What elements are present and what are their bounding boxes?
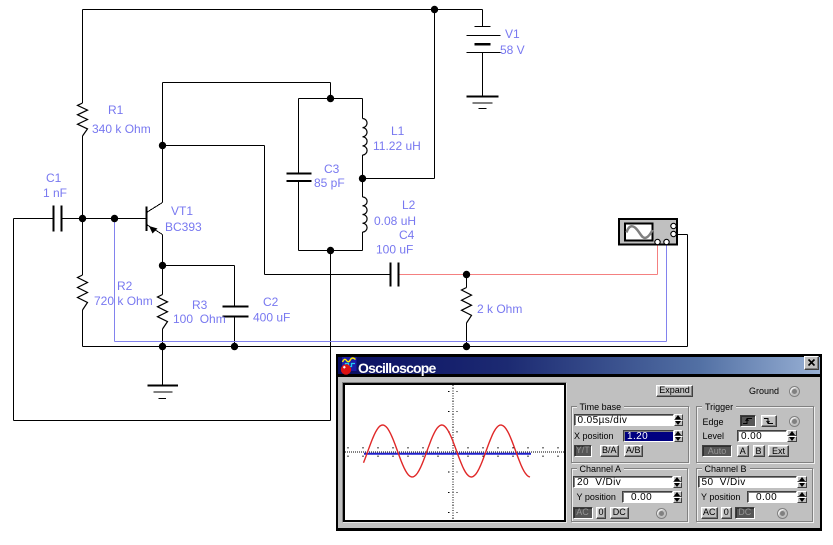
- svg-text:L1: L1: [391, 124, 405, 138]
- svg-text:2 k Ohm: 2 k Ohm: [477, 302, 522, 316]
- svg-text:C4: C4: [399, 228, 415, 242]
- svg-text:100 Ohm: 100 Ohm: [173, 312, 226, 326]
- svg-text:1 nF: 1 nF: [43, 186, 67, 200]
- svg-text:0.08 uH: 0.08 uH: [374, 214, 416, 228]
- svg-text:R3: R3: [192, 298, 208, 312]
- svg-text:720 k Ohm: 720 k Ohm: [94, 294, 153, 308]
- svg-text:C1: C1: [46, 171, 62, 185]
- svg-text:400 uF: 400 uF: [253, 311, 290, 325]
- svg-text:C3: C3: [324, 162, 340, 176]
- svg-text:85 pF: 85 pF: [314, 176, 345, 190]
- svg-text:L2: L2: [402, 198, 416, 212]
- svg-text:11.22 uH: 11.22 uH: [373, 139, 421, 153]
- svg-text:R2: R2: [117, 279, 133, 293]
- svg-text:340 k Ohm: 340 k Ohm: [92, 122, 151, 136]
- svg-text:100 uF: 100 uF: [376, 243, 413, 257]
- svg-text:V1: V1: [505, 27, 520, 41]
- svg-text:BC393: BC393: [165, 220, 202, 234]
- svg-text:VT1: VT1: [171, 204, 193, 218]
- svg-text:R1: R1: [108, 103, 124, 117]
- svg-text:58 V: 58 V: [500, 43, 525, 57]
- svg-text:C2: C2: [263, 295, 279, 309]
